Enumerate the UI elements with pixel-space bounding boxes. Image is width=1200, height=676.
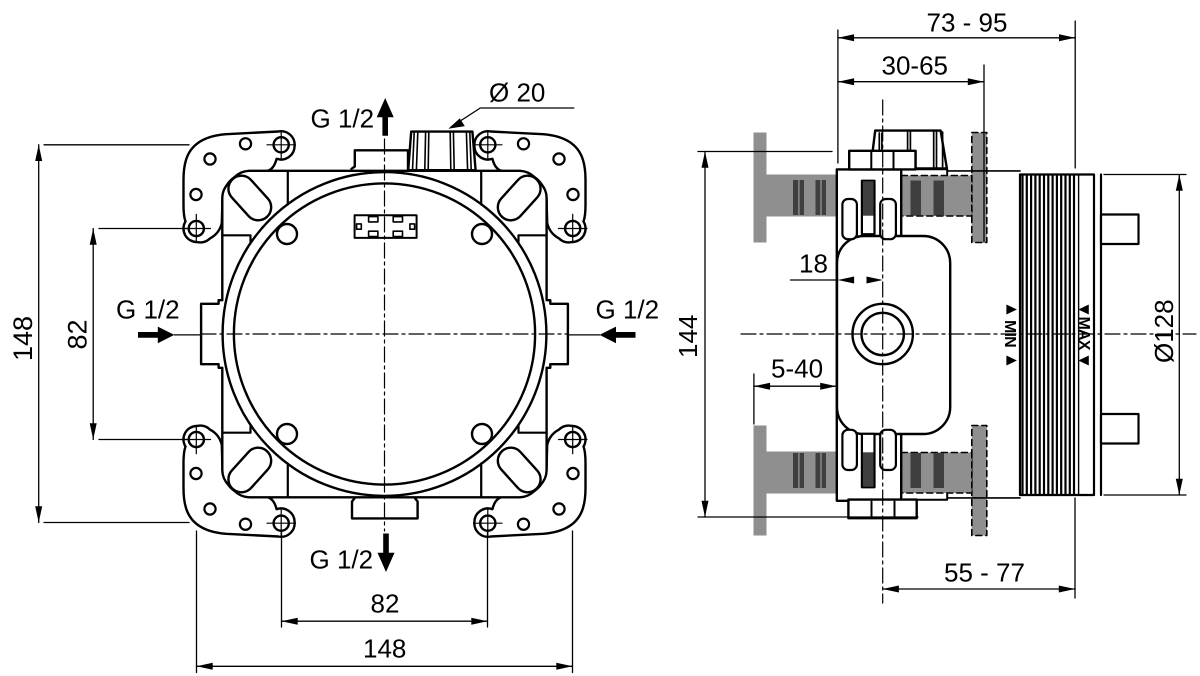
cap knurl lines side view [879,132,942,169]
wall bar top slots [793,180,804,215]
flange circle inner [234,183,535,484]
flange strip top [901,169,947,175]
hex nut top [849,151,915,170]
centerline horizontal right view [741,333,1196,335]
svg-text:5-40: 5-40 [771,354,823,384]
bracket holes top-left [182,131,295,243]
port circle inner [862,313,904,355]
wall bar top (section) [767,175,837,217]
svg-text:18: 18 [799,249,828,279]
G 1/2 arrow left [138,327,174,344]
screw hole lower-right [472,424,492,444]
dashed wall bar bottom (max position) [901,453,972,494]
bottom port stub [352,498,418,518]
svg-text:Ø 20: Ø 20 [489,78,545,108]
body rear outline top [947,170,1020,172]
valve body column [837,169,901,500]
centerline vertical [384,139,386,531]
rear pipe stub top [1101,215,1139,245]
sleeve rim divider [1078,175,1080,495]
wall stud plate top (section) [754,133,767,243]
body oval slot bottom-left [842,430,857,470]
screw hole upper-left [277,224,297,244]
body rear outline bottom [947,497,1020,499]
body oval slot bottom-right [880,430,896,470]
dimension 148 vertical [39,145,189,523]
body oval slot top-left [842,199,857,239]
svg-text:G 1/2: G 1/2 [311,103,375,133]
dashed wall plate top (max position) [972,133,987,243]
dimension 144 [698,152,918,518]
dashed wall bar top slots [911,181,922,216]
dimension diameter 128 [1104,175,1186,496]
bracket holes bottom-right [474,425,587,537]
diameter 20 leader [451,108,574,127]
oval slot top-left [223,170,276,225]
dimension 30-65 [838,65,984,242]
function block rounded body [837,236,950,434]
dashed wall plate bottom (max position) [972,426,987,536]
dashed wall bar bottom slots [911,453,922,488]
dimension 82 bottom [282,531,488,627]
svg-text:148: 148 [363,634,406,664]
body slot dark bottom [862,434,875,488]
bracket holes bottom-left [182,425,295,537]
dimension 82 vertical [93,229,189,440]
mounting bracket bottom-left [183,426,294,537]
flange strip bottom [901,494,947,500]
body oval slot top-right [880,199,896,239]
mounting bracket top-left [183,131,294,242]
dimension 18 [791,279,839,281]
svg-text:G 1/2: G 1/2 [596,295,660,325]
knurled cap G3/4 top [408,132,475,171]
RIGHT-VIEW [673,8,1196,604]
dashed wall bar top (max position) [901,176,972,217]
knurl lines on cap [413,132,472,170]
svg-text:30-65: 30-65 [882,51,949,81]
knurled cap side view [873,131,947,169]
screw hole lower-left [277,424,297,444]
dimension 5-40 [754,374,837,424]
dimension 73-95 [838,21,1075,168]
body back edge [1100,175,1102,496]
flange circle outer [223,172,547,496]
svg-text:Ø128: Ø128 [1149,299,1179,363]
corner block edge lines [223,172,546,497]
top port stub [352,150,409,170]
valve body outline [201,171,568,498]
connector plate [355,215,417,238]
port circle outer [853,304,913,364]
svg-text:73 - 95: 73 - 95 [927,8,1008,38]
hex nut bottom [848,500,916,519]
svg-text:82: 82 [371,589,400,619]
wall bar bottom slots [793,453,804,488]
svg-text:148: 148 [8,316,38,361]
G 1/2 arrow bottom [378,534,395,573]
LEFT-VIEW [8,78,659,673]
svg-text:G 1/2: G 1/2 [116,295,180,325]
dimension 55-77 [883,498,1075,598]
svg-text:G 1/2: G 1/2 [310,545,374,575]
plaster protection sleeve [1020,175,1094,496]
bracket holes top-right [474,131,587,243]
sleeve ribs [1023,176,1075,495]
mounting bracket bottom-right [474,426,585,537]
screw hole upper-right [472,224,492,244]
G 1/2 arrow top [377,98,394,136]
body slot dark top [862,181,875,235]
mounting bracket top-right [474,131,585,242]
oval slot bottom-left [223,442,276,497]
wall stud plate bottom (section) [754,426,767,536]
centerline vertical right view [882,100,884,603]
oval slot bottom-right [492,442,545,497]
MAX marking [1075,305,1092,366]
svg-text:82: 82 [63,319,93,349]
svg-text:55 - 77: 55 - 77 [944,558,1025,588]
rear pipe stub bottom [1101,414,1139,444]
oval slot top-right [492,170,545,225]
svg-text:144: 144 [673,315,703,358]
G 1/2 arrow right [600,327,636,344]
dimension 148 bottom [197,531,573,673]
MIN marking [1001,305,1018,366]
wall bar bottom (section) [767,452,837,494]
centerline horizontal [201,333,568,335]
